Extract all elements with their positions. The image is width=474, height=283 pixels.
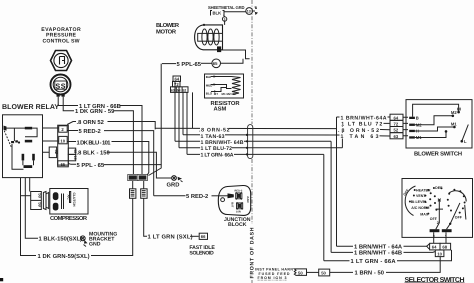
wire 1 DK GRN - 59: [63, 97, 74, 111]
switch wire H: [415, 127, 453, 131]
svg-text:JUNC: JUNC: [246, 196, 249, 203]
SECTION: compressor: [0, 178, 117, 282]
wire 5 RED-2 to junction: [154, 195, 186, 197]
relay contact arm: [7, 127, 26, 129]
svg-text:GND: GND: [89, 242, 101, 248]
svg-text:1 DK GRN-59(SXL): 1 DK GRN-59(SXL): [38, 253, 90, 260]
svg-text:RED-2: RED-2: [235, 190, 243, 193]
SECTION: blower motor: [156, 21, 250, 68]
clutch label: [70, 192, 71, 203]
wire stack 52 down: [192, 92, 194, 128]
wire w5 LT GRN-66A horizontal: [187, 153, 324, 155]
pressure switch hex body: [51, 51, 72, 71]
svg-text:B: B: [416, 116, 419, 121]
svg-text:1 BRN/WHT - 64A: 1 BRN/WHT - 64A: [354, 243, 403, 250]
svg-text:10: 10: [60, 138, 65, 143]
wire w3 BRN/WHT-64B horizontal: [175, 140, 331, 142]
junction terminal screw 2: [237, 203, 243, 209]
harness connector 50: [294, 269, 306, 276]
svg-text:66: 66: [201, 234, 206, 239]
svg-text:10R: 10R: [236, 211, 241, 214]
connector row 63 58 52: [171, 87, 189, 93]
SECTION: resistor asm: [171, 74, 244, 113]
motor brush terminal: [217, 46, 221, 52]
bundle label TAN-63: [200, 132, 225, 137]
selector wiper lever right: [447, 203, 466, 229]
svg-text:SOLENOID: SOLENOID: [189, 251, 214, 257]
terminal 68 bottom: [440, 243, 451, 250]
bundle label ORN-52: [200, 126, 229, 131]
inline connector 50: [319, 269, 330, 276]
svg-text:HI: HI: [457, 106, 461, 111]
junction wire lug: [228, 193, 234, 198]
terminal 2: [59, 126, 67, 132]
wire stack 58 down: [186, 92, 188, 154]
relay stubs to connector: [43, 128, 59, 152]
terminal 63: [390, 133, 403, 139]
switch wire B to HI: [413, 104, 459, 117]
svg-text:COMPRESSOR: COMPRESSOR: [50, 215, 88, 222]
relay contact wedge: [4, 126, 7, 131]
svg-text:BLO: BLO: [206, 92, 213, 96]
SECTION: evaporator switch: [41, 27, 142, 174]
bundle label LT GRN-66A: [200, 151, 234, 156]
connector 65: [212, 59, 221, 68]
svg-text:BLK: BLK: [213, 11, 222, 16]
left edge marks: [0, 278, 3, 281]
svg-text:50: 50: [298, 271, 303, 276]
ground GRD: [172, 176, 177, 181]
svg-text:GRD: GRD: [167, 181, 180, 188]
rotary contact dots right: [453, 189, 455, 191]
svg-text:BAT: BAT: [231, 202, 234, 208]
relay coil contacts: [13, 128, 15, 141]
svg-text:.8 BLK - 150: .8 BLK - 150: [77, 150, 110, 157]
rotary contact dots left: [414, 189, 416, 191]
connector bracket: [43, 192, 48, 210]
svg-text:SHEETMETAL GRD: SHEETMETAL GRD: [208, 5, 245, 10]
relay wire U loop: [25, 128, 37, 137]
terminal 52: [390, 127, 403, 133]
svg-text:2: 2: [437, 221, 439, 225]
svg-text:1 LT GRN (SXL): 1 LT GRN (SXL): [148, 234, 193, 241]
svg-text:1 LT GRN- 66A: 1 LT GRN- 66A: [201, 153, 234, 159]
svg-text:5 PPL - 65: 5 PPL - 65: [77, 162, 105, 169]
wire 1 TAN 63 label right: [340, 133, 380, 139]
SECTION: blower switch: [337, 100, 473, 158]
svg-text:59: 59: [129, 175, 134, 180]
terminal pins: [57, 93, 60, 96]
svg-text:52: 52: [183, 88, 187, 92]
svg-text:72: 72: [394, 122, 399, 127]
svg-text:M2: M2: [451, 110, 457, 115]
wire .8 ORN-52 label right: [337, 127, 380, 133]
terminal 32: [49, 147, 56, 158]
connector stack 64: [173, 76, 181, 81]
wire .8 BLK - 150: [75, 151, 78, 153]
bulkhead connector capsule: [248, 125, 253, 159]
svg-text:32: 32: [54, 150, 59, 155]
wires bars to terminals: [434, 232, 446, 243]
terminal 72: [390, 120, 403, 126]
wire to inline 50: [307, 271, 319, 273]
svg-text:MOTOR: MOTOR: [156, 29, 177, 36]
wire stack 63 down: [182, 92, 184, 134]
motor armature coil: [202, 29, 219, 45]
svg-text:FROM IGN 3: FROM IGN 3: [258, 276, 287, 280]
front of dash line: [251, 0, 253, 124]
switch wire M1: [415, 133, 446, 138]
switch pole B: [409, 117, 415, 119]
SECTION: selector switch: [402, 179, 473, 283]
terminal 58: [68, 148, 75, 154]
wire 5 PPL - 65: [68, 163, 76, 166]
connector plug 59: [130, 189, 136, 199]
svg-text:50: 50: [38, 193, 43, 198]
wire 1 LT GRN - 66B: [58, 97, 78, 106]
svg-text:SS: SS: [55, 81, 65, 90]
connector C200 block: [58, 125, 69, 165]
svg-text:50: 50: [321, 271, 326, 276]
terminal 10: [59, 136, 67, 143]
SECTION: blower relay: [2, 104, 77, 178]
terminal 10 bottom: [435, 250, 444, 257]
svg-text:OFF: OFF: [455, 216, 463, 220]
ground sheetmetal symbol: [253, 10, 255, 12]
wire relay to gnd lead: [25, 178, 38, 239]
svg-text:L: L: [464, 139, 467, 144]
wire 5 RED-2: [67, 130, 78, 132]
wire stack 72 down: [178, 87, 180, 148]
switch wire M2: [415, 116, 452, 125]
connector 3: [222, 17, 226, 21]
svg-text:64: 64: [175, 77, 180, 82]
resistor element R1 zigzag: [232, 77, 241, 95]
resistor internal wiring: [211, 76, 232, 78]
bundle label LT BLU-72: [200, 144, 232, 149]
wire 1 DK BLU - 101: [67, 141, 76, 143]
svg-text:66B: 66B: [139, 176, 146, 180]
terminal 55: [58, 161, 69, 167]
svg-text:64: 64: [394, 115, 399, 120]
terminal 64 bottom: [430, 243, 440, 250]
svg-text:55: 55: [61, 162, 66, 167]
wire BLK down to motor terminal: [224, 15, 225, 17]
wire vC 64A vertical: [336, 117, 338, 246]
svg-text:63: 63: [394, 134, 399, 139]
connector plug 66: [141, 189, 147, 199]
svg-text:CONTROL SW: CONTROL SW: [43, 38, 80, 44]
evaporator switch SW1 round body: [51, 75, 71, 95]
svg-text:1 DK BLU - 101: 1 DK BLU - 101: [77, 140, 112, 147]
junction terminal screw 1: [236, 193, 242, 199]
svg-text:10: 10: [437, 251, 442, 256]
svg-text:SELECTOR SWITCH: SELECTOR SWITCH: [405, 277, 465, 283]
svg-text:3: 3: [224, 17, 226, 21]
wire row to plugs: [133, 181, 144, 189]
selector switch S2 box: [402, 179, 473, 238]
svg-text:63: 63: [171, 88, 175, 92]
relay base bar: [24, 165, 33, 168]
switch wiper lever: [461, 140, 464, 143]
wire vA LT BLU/66A vertical: [323, 154, 325, 260]
wire 1 BRN - 50: [330, 271, 353, 273]
svg-text:M1: M1: [451, 121, 457, 126]
connector stack 72: [173, 81, 181, 86]
selector output bars: [430, 229, 440, 232]
connector row 59/66B: [127, 174, 147, 181]
svg-text:1 BRN/WHT - 64B: 1 BRN/WHT - 64B: [354, 249, 402, 256]
connector brace: [426, 244, 430, 249]
wire w1 ORN-52 horizontal: [155, 128, 390, 129]
resistor asm box: [205, 74, 244, 98]
svg-text:68: 68: [442, 245, 447, 250]
stub wires into switch box: [403, 117, 408, 135]
svg-text:1 DK GRN - 59: 1 DK GRN - 59: [75, 108, 115, 115]
wire 1 LT GRN(SXL) run: [144, 198, 147, 236]
svg-text:5 PPL-65: 5 PPL-65: [177, 61, 202, 68]
wire relay to compressor pin A: [21, 178, 37, 256]
junction block body: [218, 185, 250, 215]
SECTION: junction block / front of dash: [154, 0, 256, 283]
switch pole M2: [409, 124, 415, 126]
connector 66 fast idle: [199, 233, 207, 239]
switch pole H: [409, 130, 415, 132]
wire stack 64 down: [174, 81, 176, 141]
wire relay to compressor pin B: [29, 178, 31, 192]
svg-text:BLOWER SWITCH: BLOWER SWITCH: [414, 151, 462, 158]
selector wiper lever left: [436, 200, 443, 229]
wire BLK to ground connector: [224, 11, 246, 13]
connector 13: [246, 8, 253, 15]
svg-text:BLOWER RELAY: BLOWER RELAY: [2, 104, 59, 111]
svg-text:65: 65: [213, 61, 218, 66]
SECTION: bottom right wires: [255, 117, 452, 280]
relay armature dashed: [4, 131, 11, 147]
svg-text:52: 52: [394, 128, 399, 133]
wire 1 LT BLU 72 to switch: [342, 122, 390, 124]
switch pole M1: [409, 136, 415, 138]
wire 1 DK GRN-59(SXL) run: [91, 198, 133, 255]
svg-text:13: 13: [247, 10, 251, 14]
SECTION: top sheetmetal ground: [208, 5, 258, 21]
relay K1 box: [3, 115, 43, 178]
SECTION: left labels & wires: [67, 64, 215, 257]
ground mounting bracket symbol: [80, 236, 85, 241]
wire 1 LT GRN - 66A bottom: [324, 260, 350, 262]
bundle label BRN/WHT-64B: [200, 139, 244, 144]
svg-text:1 BLK-150(SXL): 1 BLK-150(SXL): [39, 236, 83, 243]
motor armature bar: [198, 33, 223, 41]
wire w4 LT BLU-72 horizontal: [179, 147, 342, 149]
wire vB 64B vertical: [330, 141, 332, 252]
svg-text:BLOWER: BLOWER: [156, 22, 180, 29]
svg-text:64: 64: [432, 245, 437, 250]
terminal 64: [390, 114, 403, 120]
motor M1 body: [203, 25, 223, 50]
svg-text:CLUTCH: CLUTCH: [72, 193, 76, 207]
svg-text:1 BRN - 50: 1 BRN - 50: [355, 270, 385, 277]
wire 1 BRN/WHT-64A to switch: [337, 116, 391, 118]
svg-text:.8 ORN 52: .8 ORN 52: [77, 119, 104, 126]
svg-text:5 RED-2: 5 RED-2: [186, 193, 208, 200]
svg-text:ASM: ASM: [214, 106, 227, 113]
selector rotary arc left: [405, 186, 415, 216]
wire motor ground lead to dash: [221, 50, 249, 59]
blower switch S1 box: [406, 100, 472, 148]
wire .8 ORN 52: [67, 122, 76, 125]
terminal 18: [68, 154, 75, 160]
svg-text:5 RED-2: 5 RED-2: [79, 128, 101, 135]
wire BLK label with brackets: [211, 11, 225, 16]
wire 5 PPL-65 feed: [162, 63, 176, 65]
svg-text:BLOCK: BLOCK: [228, 222, 247, 228]
wire w2 TAN-63 horizontal: [183, 135, 390, 136]
junction mounting hole: [221, 198, 225, 202]
wire 1 BRN/WHT - 64B bottom: [331, 251, 353, 253]
svg-text:59: 59: [38, 202, 43, 207]
svg-text:1 LT GRN - 66A: 1 LT GRN - 66A: [351, 258, 397, 265]
relay coil pins: [22, 154, 25, 161]
selector rotary arc right: [449, 191, 466, 202]
wire 1 BRN/WHT - 64A bottom: [337, 245, 354, 247]
connector pair 50/59: [31, 192, 42, 210]
compressor A/C box: [50, 189, 88, 215]
SECTION: middle bundle: [155, 81, 390, 158]
